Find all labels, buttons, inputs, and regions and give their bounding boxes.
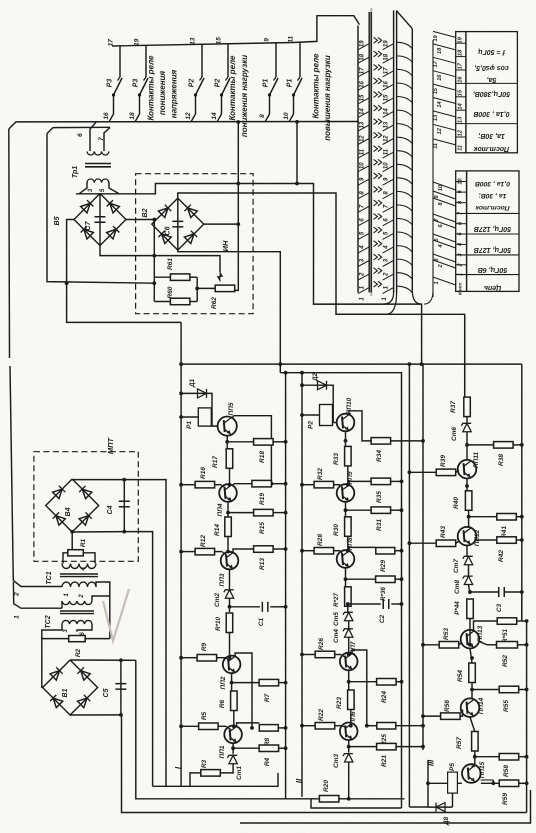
diode D2: [302, 372, 327, 389]
transistor PP4: [217, 484, 237, 516]
resistor R39: [409, 455, 459, 476]
table upper fan wires 11-19: [424, 31, 456, 304]
resistor R37: [450, 397, 470, 417]
wire B5 bottom to R62 wiper: [100, 246, 220, 273]
dashed box IN (inverter): [136, 174, 254, 314]
table lower fan wires 1-10: [433, 182, 456, 285]
wire R57 chain to PP15 top: [472, 765, 475, 768]
wire rail to P1: [181, 416, 198, 418]
resistor R7: [232, 679, 286, 702]
capacitor C5: [103, 660, 126, 715]
transformer TC2: [42, 596, 110, 688]
resistor R34: [371, 438, 423, 462]
resistor R53: [423, 628, 462, 648]
wire R62 left lead: [197, 287, 215, 289]
wire PP6 emitter node: [348, 740, 350, 752]
wire P5 to PP15 base: [457, 782, 462, 784]
resistor R15: [228, 509, 286, 534]
resistor R24: [349, 679, 402, 703]
resistor R42: [476, 537, 522, 562]
wire ch2 box bottom: [311, 799, 402, 808]
capacitor C2: [348, 599, 402, 623]
resistor R44: [454, 599, 473, 619]
transformer TC1: [14, 553, 110, 639]
resistor R16: [181, 467, 221, 488]
transistor PP6: [340, 711, 358, 740]
wire PP11 emitter node: [466, 479, 468, 492]
label relay group 1: Kontakty rele ponizheniya napryazheniya: [147, 55, 179, 120]
wire rail to P2: [302, 414, 320, 416]
wire rail y372.7: [280, 373, 401, 808]
resistor R3: [190, 759, 233, 786]
zener St3: [333, 754, 353, 768]
resistor R21: [349, 743, 423, 767]
wire C5 bottom bus down: [122, 715, 527, 813]
wire A: from Tr1 rail to bus y304: [126, 184, 422, 364]
relay contact Р2 pins 15/14: [211, 37, 230, 122]
wire PP9 emitter node: [345, 502, 347, 517]
resistor R23: [336, 690, 354, 710]
potentiometer R62: [211, 272, 235, 309]
wire R2 to B1 left: [42, 638, 69, 640]
wire x47 branch to R60 node: [47, 134, 154, 284]
resistor R20 (in bottom bus): [319, 780, 339, 802]
transistor PP14: [461, 697, 485, 717]
wire B5 AC top rail: [76, 193, 126, 195]
node ch3 rail x409: [408, 364, 410, 807]
transistor PP3: [219, 552, 238, 587]
zener St6: [451, 417, 471, 441]
wire B1 top rail: [70, 659, 136, 661]
resistor R59: [481, 780, 527, 805]
wire PP5 collector loop: [232, 416, 272, 484]
wire PP3 emitter: [229, 569, 231, 589]
wire D1 to PP5 base: [207, 393, 218, 426]
resistor R31: [346, 507, 402, 531]
wire B4 top output: [72, 479, 166, 786]
transistor PP13: [461, 625, 484, 648]
zener St1: [227, 755, 243, 780]
transistor PP9: [337, 471, 355, 502]
scan fold artifact: [370, 8, 372, 296]
wire PP7 collector down-link: [352, 650, 367, 726]
transistor PP1: [219, 726, 242, 759]
resistor R12: [181, 535, 222, 555]
wire PP5 emitter node: [226, 436, 228, 449]
wire relay bus down join: [296, 122, 298, 184]
resistor R14: [214, 517, 231, 537]
resistor R40: [453, 491, 472, 511]
resistor R1: [68, 538, 87, 555]
transformer Tr1: [72, 122, 119, 194]
bridge B2: [152, 198, 204, 250]
wire left rail to TC2: [13, 582, 62, 608]
wire St2 to R10: [229, 598, 231, 612]
resistor R43: [409, 526, 459, 547]
wire B1 bottom rail: [70, 714, 121, 716]
capacitor C3: [470, 587, 522, 612]
wire R60/R61 parallel nodes: [153, 256, 155, 302]
relay coil P5: [448, 763, 458, 793]
wire B5 left corner down: [67, 220, 182, 323]
capacitor C6: [165, 198, 184, 250]
relay contact Р3 pins 19/18: [129, 38, 148, 121]
node ch3 left rail x428: [409, 806, 428, 808]
resistor R28: [302, 534, 340, 554]
transistor PP12: [458, 527, 481, 546]
resistor R60: [167, 286, 190, 305]
wire PP12 emitter: [466, 546, 468, 557]
resistor R61: [167, 258, 190, 281]
bridge B5: [74, 194, 126, 246]
wire PP8 emitter node: [345, 568, 347, 588]
node ch3 right rail x521.8: [521, 364, 523, 621]
label relay group 3: Kontakty rele povysheniya nagruzki: [312, 53, 333, 141]
wire PP10 collector to R34: [349, 411, 371, 441]
wire bottom bus L4: [240, 790, 531, 823]
resistor R32: [302, 468, 340, 488]
wire left vertical rail: [8, 129, 11, 358]
resistor R13: [233, 546, 286, 570]
wire PP7 emitter node: [348, 670, 350, 691]
wire PP2 collector down-link: [235, 653, 252, 728]
transistor PP11: [458, 452, 480, 479]
resistor R19: [232, 480, 286, 505]
resistor R9: [181, 642, 225, 661]
resistor R52: [479, 642, 526, 667]
resistor R30: [333, 517, 351, 537]
transistor PP10: [337, 397, 355, 431]
resistor R5: [181, 711, 226, 729]
transistor PP15: [462, 761, 486, 782]
resistor R51: [474, 618, 527, 643]
capacitor C1: [230, 602, 286, 626]
wire B5 right corner to B2 left / divider node: [126, 220, 154, 256]
wire St6 to PP11: [466, 432, 468, 461]
resistor R57: [456, 732, 478, 752]
resistor R35: [349, 478, 402, 503]
relay coil P2: [308, 405, 333, 429]
resistor R36: [346, 576, 402, 601]
wire relay bottom bus: [9, 122, 359, 130]
node ch3 outer rail x526.6: [526, 621, 528, 813]
node channel I left rail: [180, 322, 182, 786]
wire PP2 emitter node: [231, 673, 233, 692]
zener St2: [214, 590, 234, 607]
wire P5 bottom to D8 wire: [452, 793, 454, 807]
wire B1 top bus down: [136, 660, 405, 799]
transistor PP7: [340, 641, 358, 670]
resistor R6: [219, 691, 237, 711]
resistor R8: [237, 723, 286, 746]
label relay group 2: Kontakty rele ponizheniya nagruzki: [228, 55, 249, 137]
node channel II left rail: [301, 373, 303, 797]
wire strip bottom stems: [314, 293, 394, 305]
wire D2 to PP10 base: [327, 385, 336, 422]
capacitor C4: [107, 480, 130, 532]
bridge B4: [46, 479, 99, 532]
resistor R27: [333, 587, 351, 607]
wire R62 riser from relay bus: [230, 122, 238, 290]
resistor R18: [227, 439, 285, 463]
resistor R29: [349, 547, 402, 572]
table upper (pins 11-19 circuits): [456, 32, 518, 153]
resistor R17: [212, 449, 233, 469]
diode D8: [428, 803, 453, 827]
paper grain: [0, 0, 1, 1]
zener St5: [333, 612, 353, 626]
connector strip X1 plug/socket pins 1-19: [358, 10, 412, 300]
resistor R22: [302, 709, 342, 729]
relay contact Р1 pins 9/8: [259, 38, 278, 122]
wire PP10 emitter node: [345, 431, 347, 446]
node channel I right rail: [285, 373, 287, 799]
node ch3 rail x423 joints: [421, 643, 425, 647]
wire St3 down to R20 bus: [348, 762, 350, 799]
wire PP14 emitter node: [470, 717, 475, 732]
relay contact Р1 pins 11/10: [283, 36, 302, 122]
resistor R26: [302, 638, 341, 658]
resistor R33: [333, 446, 351, 466]
dashed box MPT: [34, 452, 138, 562]
resistor R41: [469, 514, 522, 538]
relay contact Р3 pins 17/16: [103, 39, 122, 122]
wire relay top bus: [112, 16, 359, 46]
resistor R56: [423, 700, 463, 720]
relay coil P1: [186, 408, 211, 429]
resistor R4: [233, 745, 286, 766]
resistor R58: [475, 754, 527, 777]
capacitor C7: [85, 194, 106, 246]
bridge B1: [43, 660, 98, 715]
resistor R2: [69, 636, 86, 658]
wire ch1 box bottom: [153, 773, 278, 786]
wire R17 to PP4 base wire: [229, 468, 231, 485]
diode D1: [181, 378, 206, 397]
wire B4 bottom to R1: [71, 532, 73, 549]
wire B2 right corner to R62 riser: [203, 223, 239, 225]
wire PP13 emitter node: [470, 649, 472, 664]
resistor R38: [467, 442, 522, 466]
wire PP15 base feed from rail: [428, 782, 448, 784]
transistor PP8: [337, 537, 355, 568]
wire B4 bottom output: [72, 532, 152, 787]
zener St4: [333, 629, 353, 643]
wire top rail y364: [181, 363, 522, 365]
zener St7: [453, 556, 473, 573]
wire B2 bottom to channel rails: [178, 250, 280, 373]
transistor PP5: [218, 402, 237, 436]
relay contact Р2 pins 13/12: [185, 37, 204, 121]
wire bottom bus L3: [521, 592, 523, 621]
wire ch3 left rail x421.6 continues: [422, 363, 423, 750]
wire PP1 emitter node: [232, 743, 234, 754]
transistor PP2: [220, 656, 240, 690]
resistor R10: [215, 613, 233, 633]
wire B: B2 top to R37 feed: [178, 193, 465, 397]
resistor R54: [457, 663, 475, 683]
table lower (pins 1-10 circuits): [456, 171, 519, 295]
resistor R55: [472, 686, 527, 712]
wire R2 right to TC bracket: [85, 638, 110, 640]
wire PP4 emitter node: [227, 502, 229, 517]
wire PP15 collector loop: [492, 780, 494, 783]
zener St8: [454, 576, 473, 594]
wire second bus to Tr1: [47, 127, 110, 133]
resistor R25: [367, 723, 423, 746]
